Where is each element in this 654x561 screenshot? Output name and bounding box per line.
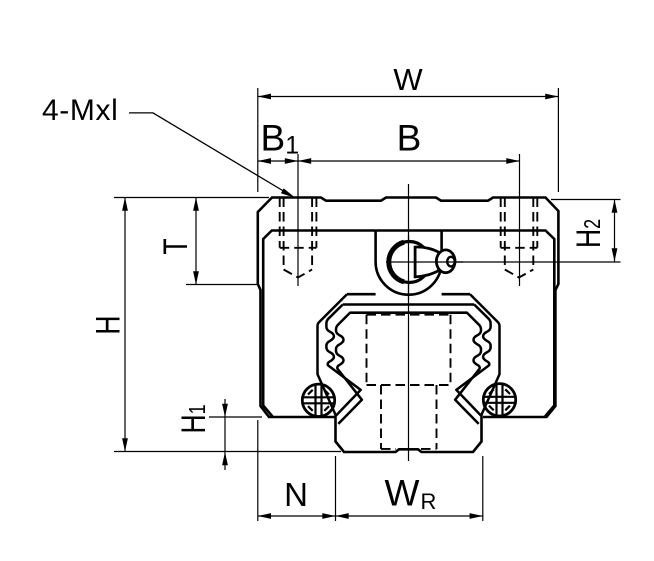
svg-text:4-Mxl: 4-Mxl bbox=[42, 94, 118, 127]
svg-text:H1: H1 bbox=[175, 404, 213, 433]
svg-text:B1: B1 bbox=[261, 117, 300, 159]
svg-text:R: R bbox=[421, 489, 437, 514]
svg-text:T: T bbox=[157, 238, 195, 254]
svg-text:B: B bbox=[397, 117, 422, 158]
svg-text:H: H bbox=[90, 315, 128, 334]
svg-text:W: W bbox=[385, 473, 420, 514]
svg-text:W: W bbox=[393, 62, 423, 97]
svg-text:H2: H2 bbox=[570, 219, 608, 248]
svg-text:N: N bbox=[284, 476, 308, 513]
